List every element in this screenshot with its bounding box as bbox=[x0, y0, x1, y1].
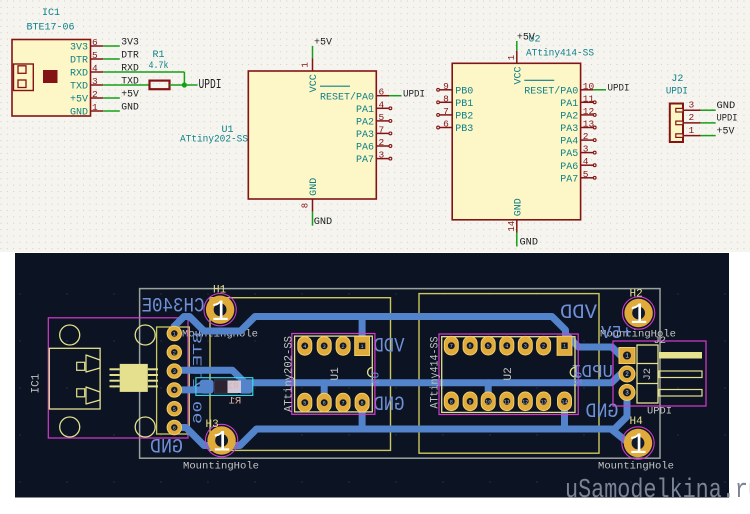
svg-text:ATtiny202-SS: ATtiny202-SS bbox=[284, 336, 296, 412]
svg-text:PA2: PA2 bbox=[356, 118, 374, 129]
svg-text:6: 6 bbox=[92, 37, 98, 48]
svg-text:5: 5 bbox=[303, 401, 306, 407]
svg-text:2: 2 bbox=[92, 89, 98, 100]
svg-text:IC1: IC1 bbox=[42, 8, 60, 19]
svg-text:7: 7 bbox=[379, 124, 385, 135]
svg-text:3: 3 bbox=[379, 150, 385, 161]
svg-text:11: 11 bbox=[583, 93, 595, 104]
svg-text:3V3: 3V3 bbox=[70, 43, 88, 54]
svg-text:2: 2 bbox=[379, 137, 385, 148]
svg-text:9: 9 bbox=[443, 81, 449, 92]
svg-text:VCC: VCC bbox=[514, 66, 525, 84]
svg-text:ATtiny202-SS: ATtiny202-SS bbox=[180, 133, 248, 145]
svg-text:1: 1 bbox=[213, 427, 231, 461]
svg-text:6: 6 bbox=[469, 344, 472, 350]
svg-text:UPDI: UPDI bbox=[199, 77, 222, 93]
svg-text:UPDI: UPDI bbox=[403, 89, 425, 100]
svg-text:PB2: PB2 bbox=[455, 112, 473, 123]
svg-text:J2: J2 bbox=[654, 335, 667, 347]
svg-text:5: 5 bbox=[583, 169, 589, 180]
svg-text:2: 2 bbox=[542, 344, 545, 350]
svg-text:GND: GND bbox=[314, 216, 333, 228]
svg-text:4: 4 bbox=[583, 156, 589, 167]
svg-text:4: 4 bbox=[92, 63, 98, 74]
svg-text:3: 3 bbox=[524, 344, 527, 350]
svg-text:MountingHole: MountingHole bbox=[183, 461, 259, 473]
svg-text:+5V: +5V bbox=[70, 95, 88, 106]
svg-text:6: 6 bbox=[379, 87, 385, 98]
svg-text:TXD: TXD bbox=[70, 82, 88, 93]
svg-text:DTR: DTR bbox=[70, 56, 88, 67]
svg-text:R1: R1 bbox=[229, 396, 242, 408]
svg-text:6: 6 bbox=[323, 401, 326, 407]
svg-text:5: 5 bbox=[379, 112, 385, 123]
svg-text:DTR: DTR bbox=[121, 50, 139, 61]
svg-text:U2: U2 bbox=[503, 367, 515, 380]
svg-text:GND: GND bbox=[514, 198, 525, 216]
svg-text:J2: J2 bbox=[671, 74, 683, 85]
svg-text:CH340E: CH340E bbox=[142, 295, 205, 318]
svg-text:GND: GND bbox=[374, 394, 405, 417]
svg-text:14: 14 bbox=[507, 221, 517, 232]
svg-text:13: 13 bbox=[583, 119, 595, 130]
svg-text:1: 1 bbox=[300, 62, 310, 67]
svg-text:+5V: +5V bbox=[517, 32, 536, 44]
svg-text:TXD: TXD bbox=[121, 76, 139, 87]
svg-text:8: 8 bbox=[443, 93, 449, 104]
svg-text:+5V: +5V bbox=[314, 36, 333, 48]
svg-text:12: 12 bbox=[583, 106, 595, 117]
svg-text:5: 5 bbox=[92, 50, 98, 61]
svg-text:GND: GND bbox=[309, 178, 320, 196]
svg-text:uSamodelkina.ru: uSamodelkina.ru bbox=[565, 476, 750, 506]
svg-text:1: 1 bbox=[92, 102, 98, 113]
svg-text:1: 1 bbox=[625, 353, 629, 360]
svg-text:RXD: RXD bbox=[121, 63, 139, 74]
svg-text:PB1: PB1 bbox=[455, 99, 473, 110]
svg-text:2: 2 bbox=[689, 112, 695, 123]
svg-text:1: 1 bbox=[630, 299, 648, 333]
svg-text:GND: GND bbox=[520, 236, 539, 248]
svg-text:GND: GND bbox=[150, 436, 183, 459]
svg-text:GND: GND bbox=[121, 102, 139, 113]
svg-text:IC1: IC1 bbox=[31, 373, 43, 393]
svg-text:VDD: VDD bbox=[374, 335, 405, 358]
svg-text:PB3: PB3 bbox=[455, 124, 473, 135]
svg-text:4.7k: 4.7k bbox=[149, 60, 169, 72]
svg-text:H3: H3 bbox=[206, 419, 219, 431]
svg-text:8: 8 bbox=[450, 399, 453, 405]
svg-text:1: 1 bbox=[689, 125, 695, 136]
svg-text:3: 3 bbox=[323, 344, 326, 350]
svg-text:4: 4 bbox=[303, 344, 306, 350]
svg-text:12: 12 bbox=[522, 399, 528, 405]
svg-text:R1: R1 bbox=[153, 50, 165, 61]
svg-text:7: 7 bbox=[443, 106, 449, 117]
svg-text:PA1: PA1 bbox=[356, 105, 374, 116]
svg-text:GND: GND bbox=[70, 108, 88, 119]
svg-text:U1: U1 bbox=[330, 367, 342, 381]
svg-text:J2: J2 bbox=[642, 368, 654, 381]
svg-text:3V3: 3V3 bbox=[121, 37, 139, 48]
svg-text:VDD: VDD bbox=[560, 302, 597, 325]
svg-text:RESET/PA0: RESET/PA0 bbox=[320, 91, 374, 103]
svg-text:UPDI: UPDI bbox=[608, 84, 630, 95]
svg-text:9: 9 bbox=[469, 399, 472, 405]
svg-text:8: 8 bbox=[361, 401, 364, 407]
svg-text:U2: U2 bbox=[574, 372, 586, 385]
svg-text:3: 3 bbox=[625, 390, 629, 397]
svg-text:1: 1 bbox=[361, 344, 364, 350]
svg-text:4: 4 bbox=[505, 344, 508, 350]
svg-text:7: 7 bbox=[342, 401, 345, 407]
svg-text:UPDI: UPDI bbox=[717, 113, 738, 125]
svg-text:6: 6 bbox=[443, 119, 449, 130]
svg-text:14: 14 bbox=[561, 399, 567, 405]
svg-text:2: 2 bbox=[173, 350, 176, 356]
svg-text:RESET/PA0: RESET/PA0 bbox=[524, 85, 578, 97]
svg-text:+5V: +5V bbox=[121, 89, 139, 100]
svg-text:3: 3 bbox=[689, 99, 695, 110]
svg-text:8: 8 bbox=[301, 203, 311, 208]
svg-text:3: 3 bbox=[92, 76, 98, 87]
svg-text:4: 4 bbox=[173, 388, 176, 394]
svg-text:7: 7 bbox=[450, 344, 453, 350]
svg-text:UPDI: UPDI bbox=[666, 86, 688, 97]
svg-text:6: 6 bbox=[173, 426, 176, 432]
svg-text:PA6: PA6 bbox=[356, 143, 374, 154]
svg-text:4: 4 bbox=[379, 99, 385, 110]
svg-text:PA2: PA2 bbox=[560, 112, 578, 123]
svg-text:10: 10 bbox=[583, 81, 595, 92]
svg-text:PA7: PA7 bbox=[356, 155, 374, 166]
svg-text:1: 1 bbox=[629, 429, 647, 463]
svg-text:PA5: PA5 bbox=[560, 149, 578, 160]
svg-text:H4: H4 bbox=[630, 416, 644, 428]
svg-text:GND: GND bbox=[717, 100, 736, 112]
svg-text:PA4: PA4 bbox=[560, 137, 578, 148]
svg-text:VCC: VCC bbox=[309, 74, 320, 92]
svg-text:RXD: RXD bbox=[70, 69, 88, 80]
svg-text:BTE17-06: BTE17-06 bbox=[27, 23, 75, 34]
svg-text:5: 5 bbox=[487, 344, 490, 350]
svg-text:ATtiny414-SS: ATtiny414-SS bbox=[430, 336, 442, 408]
svg-text:H1: H1 bbox=[213, 284, 227, 296]
svg-text:PB0: PB0 bbox=[455, 86, 473, 97]
svg-text:PA6: PA6 bbox=[560, 162, 578, 173]
svg-text:2: 2 bbox=[625, 371, 629, 378]
svg-text:UPDI: UPDI bbox=[647, 406, 672, 418]
svg-text:3: 3 bbox=[173, 369, 176, 375]
svg-text:2: 2 bbox=[583, 131, 589, 142]
svg-text:PA1: PA1 bbox=[560, 99, 578, 110]
svg-text:H2: H2 bbox=[630, 289, 643, 301]
svg-text:3: 3 bbox=[583, 144, 589, 155]
svg-text:U1: U1 bbox=[371, 372, 383, 386]
svg-text:10: 10 bbox=[485, 399, 491, 405]
svg-text:1: 1 bbox=[173, 332, 176, 338]
svg-text:1: 1 bbox=[211, 296, 229, 330]
svg-text:+5V: +5V bbox=[717, 125, 736, 137]
svg-text:13: 13 bbox=[540, 399, 546, 405]
svg-text:PA7: PA7 bbox=[560, 174, 578, 185]
svg-text:5: 5 bbox=[173, 407, 176, 413]
svg-text:PA3: PA3 bbox=[356, 130, 374, 141]
svg-text:ATtiny414-SS: ATtiny414-SS bbox=[526, 48, 594, 60]
svg-text:PA3: PA3 bbox=[560, 124, 578, 135]
svg-text:1: 1 bbox=[507, 55, 517, 60]
svg-text:11: 11 bbox=[504, 399, 510, 405]
svg-text:R1: R1 bbox=[228, 382, 239, 392]
svg-text:2: 2 bbox=[342, 344, 345, 350]
svg-text:1: 1 bbox=[563, 344, 566, 350]
